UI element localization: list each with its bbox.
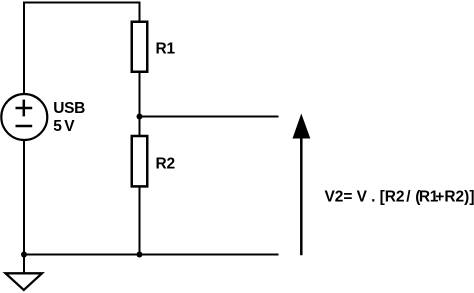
svg-text:USB: USB: [53, 100, 85, 117]
wire middle horizontal: [140, 116, 279, 118]
arrow V2 shaft: [300, 137, 303, 255]
arrow V2 head: [293, 115, 309, 138]
voltage source V1 circle: [1, 94, 47, 140]
svg-text:R2: R2: [156, 156, 175, 173]
ground symbol: [6, 273, 43, 290]
wire R1 top stub: [139, 2, 141, 23]
junction dot middle: [137, 114, 143, 120]
junction dot bottom-left: [21, 252, 27, 258]
wire top horizontal: [23, 2, 141, 4]
wire bottom horizontal: [23, 254, 279, 256]
resistor R1: [132, 22, 148, 72]
voltage source minus sign: [16, 125, 33, 128]
voltage source plus sign: [16, 100, 33, 117]
wire between R1 and R2: [139, 72, 141, 136]
svg-text:V2= V . [R2/(R1+R2)]: V2= V . [R2/(R1+R2)]: [325, 188, 474, 205]
wire ground stub: [23, 255, 25, 274]
resistor R2: [132, 136, 148, 186]
wire left vertical upper: [23, 2, 25, 95]
wire left vertical lower: [23, 140, 25, 255]
junction dot bottom-middle: [137, 252, 143, 258]
wire R2 bottom stub: [139, 186, 141, 255]
svg-text:5V: 5V: [53, 118, 75, 135]
svg-text:R1: R1: [156, 41, 176, 58]
